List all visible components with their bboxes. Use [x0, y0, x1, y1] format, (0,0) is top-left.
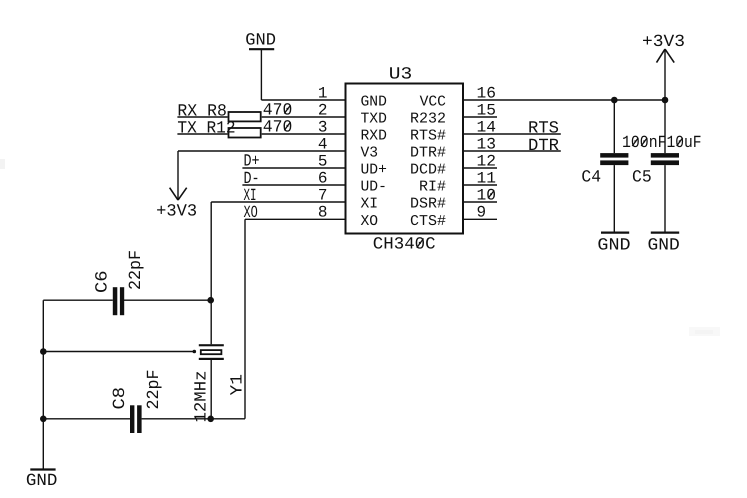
slash in 0 of 10uF [677, 138, 683, 146]
slash in 0 of 470 (R12) [284, 122, 290, 130]
svg-text:XO: XO [361, 213, 379, 230]
wire pin9 stub [463, 218, 497, 220]
svg-text:GND: GND [26, 472, 58, 491]
svg-text:7: 7 [318, 186, 328, 204]
slash in 0 of pin number 10 [488, 190, 494, 198]
crystal Y1 body [201, 350, 222, 354]
svg-text:UD-: UD- [361, 179, 387, 196]
svg-text:2: 2 [318, 101, 328, 119]
wire pin12 stub [463, 167, 497, 169]
svg-text:8: 8 [318, 204, 328, 222]
svg-text:GND: GND [648, 237, 680, 256]
svg-text:10uF: 10uF [667, 134, 702, 153]
capacitor C4 plates [600, 153, 628, 158]
svg-text:4: 4 [318, 135, 328, 153]
crystal Y1 bottom plate [199, 358, 224, 360]
wire crystal bottom vertical [210, 360, 212, 419]
svg-text:15: 15 [477, 101, 497, 119]
edge artifact [0, 159, 5, 169]
junction rail/bottom wire [40, 416, 47, 423]
svg-text:22pF: 22pF [127, 250, 146, 290]
slash in second 0 of 100nF [641, 138, 647, 146]
svg-text:GND: GND [361, 94, 387, 111]
svg-text:DSR#: DSR# [410, 196, 446, 213]
zero slashes (KiCad slashed-zero style) [284, 105, 682, 248]
junction crystal/bottom wire [207, 416, 214, 423]
svg-text:12: 12 [477, 152, 497, 170]
wire C4 top [613, 100, 615, 153]
svg-text:GND: GND [245, 32, 276, 51]
resistor R8 [229, 112, 261, 121]
capacitor C6 plates [113, 287, 118, 315]
wire pin7 XI [211, 201, 345, 203]
ground under C4 [601, 232, 629, 234]
svg-text:U3: U3 [389, 65, 413, 84]
junction rail/mid wire [40, 348, 47, 355]
wire C5 bottom to GND [664, 165, 666, 233]
svg-text:DTR: DTR [528, 137, 559, 156]
ground bar top GND [249, 48, 274, 50]
wire pin4 vertical to +3V3 [177, 151, 179, 200]
svg-text:13: 13 [477, 135, 497, 153]
svg-text:11: 11 [477, 169, 497, 187]
wire GND top vertical [260, 49, 262, 100]
slash in 0 of CH340C [417, 239, 424, 248]
svg-text:C8: C8 [111, 387, 130, 410]
svg-text:3: 3 [318, 118, 328, 136]
wire pin5 D+ [242, 167, 345, 169]
wire C6 right [124, 299, 211, 301]
wire +3V3 vertical to C5 [664, 49, 666, 153]
svg-text:14: 14 [477, 118, 497, 136]
wire XO vertical [244, 219, 246, 418]
svg-text:TXD: TXD [361, 111, 387, 128]
svg-text:UD+: UD+ [361, 162, 387, 179]
wire left rail [42, 300, 44, 469]
wire C6 left [43, 299, 113, 301]
wire pin10 stub [463, 201, 497, 203]
svg-text:C4: C4 [581, 169, 601, 188]
svg-text:470: 470 [263, 118, 293, 137]
svg-text:Y1: Y1 [229, 374, 248, 396]
wire pin2 left (RX) [177, 116, 227, 118]
wire pin13 DTR [463, 150, 561, 152]
junction C5/+3V3 [662, 97, 669, 104]
wire pin4 [178, 150, 346, 152]
junction XI/C6 [207, 297, 214, 304]
wire pin8 XO [245, 218, 346, 220]
svg-text:TX R12: TX R12 [177, 120, 235, 139]
svg-text:22pF: 22pF [145, 370, 164, 410]
capacitor C5 plates [651, 153, 679, 158]
svg-text:C6: C6 [94, 270, 113, 293]
svg-text:D+: D+ [244, 153, 260, 172]
svg-text:CTS#: CTS# [410, 213, 446, 230]
wire pin14 RTS [463, 133, 561, 135]
svg-text:V3: V3 [361, 145, 379, 162]
wire bottom right of C8 [142, 418, 245, 420]
wire end blob at crystal left [193, 350, 197, 354]
svg-text:RTS: RTS [528, 120, 559, 139]
svg-text:+3V3: +3V3 [642, 33, 685, 52]
svg-text:RTS#: RTS# [410, 128, 446, 145]
slash in first 0 of 100nF [632, 138, 638, 146]
svg-text:100nF: 100nF [622, 134, 667, 153]
svg-text:XO: XO [244, 204, 258, 223]
svg-text:1: 1 [318, 84, 328, 102]
svg-text:6: 6 [318, 169, 328, 187]
svg-text:RI#: RI# [419, 179, 446, 196]
svg-text:10: 10 [477, 186, 497, 204]
svg-text:DTR#: DTR# [410, 145, 446, 162]
wire pin15 stub [463, 116, 497, 118]
svg-text:+3V3: +3V3 [156, 202, 197, 221]
svg-text:R232: R232 [410, 111, 446, 128]
op IC U3 box [346, 84, 464, 234]
power arrow +3V3 down (pin4) [170, 188, 187, 200]
crystal Y1 top plate [199, 344, 224, 346]
svg-text:VCC: VCC [420, 94, 446, 111]
wire pin1 [261, 99, 345, 101]
wire pin11 stub [463, 184, 497, 186]
ground bottom-left GND [30, 468, 55, 470]
ground under C5 [651, 232, 679, 234]
capacitor C8 plates [130, 405, 134, 433]
wire C4 bottom to GND [613, 165, 615, 233]
svg-text:16: 16 [477, 84, 497, 102]
wire pin3 left (TX) [177, 133, 227, 135]
faint smudge right [689, 327, 720, 336]
wire pin2 right [262, 116, 346, 118]
wire XI vertical to crystal [210, 202, 212, 344]
svg-text:RXD: RXD [361, 128, 387, 145]
wire middle to crystal [43, 351, 195, 353]
svg-text:C5: C5 [632, 169, 652, 188]
svg-text:5: 5 [318, 152, 328, 170]
wire pin16 VCC [463, 99, 665, 101]
svg-text:XI: XI [361, 196, 379, 213]
wire pin6 D- [242, 184, 345, 186]
svg-text:GND: GND [597, 237, 630, 256]
slash in 0 of 470 (R8) [284, 105, 290, 113]
wire bottom left of C8 [43, 418, 130, 420]
junction C4/pin16 [611, 97, 618, 104]
resistor R12 [229, 128, 261, 138]
power arrow +3V3 up (right) [657, 49, 675, 63]
wire pin3 right [262, 133, 346, 135]
svg-text:DCD#: DCD# [410, 162, 446, 179]
svg-text:12MHz: 12MHz [193, 371, 212, 423]
svg-text:CH340C: CH340C [373, 236, 436, 255]
svg-text:9: 9 [477, 204, 487, 222]
